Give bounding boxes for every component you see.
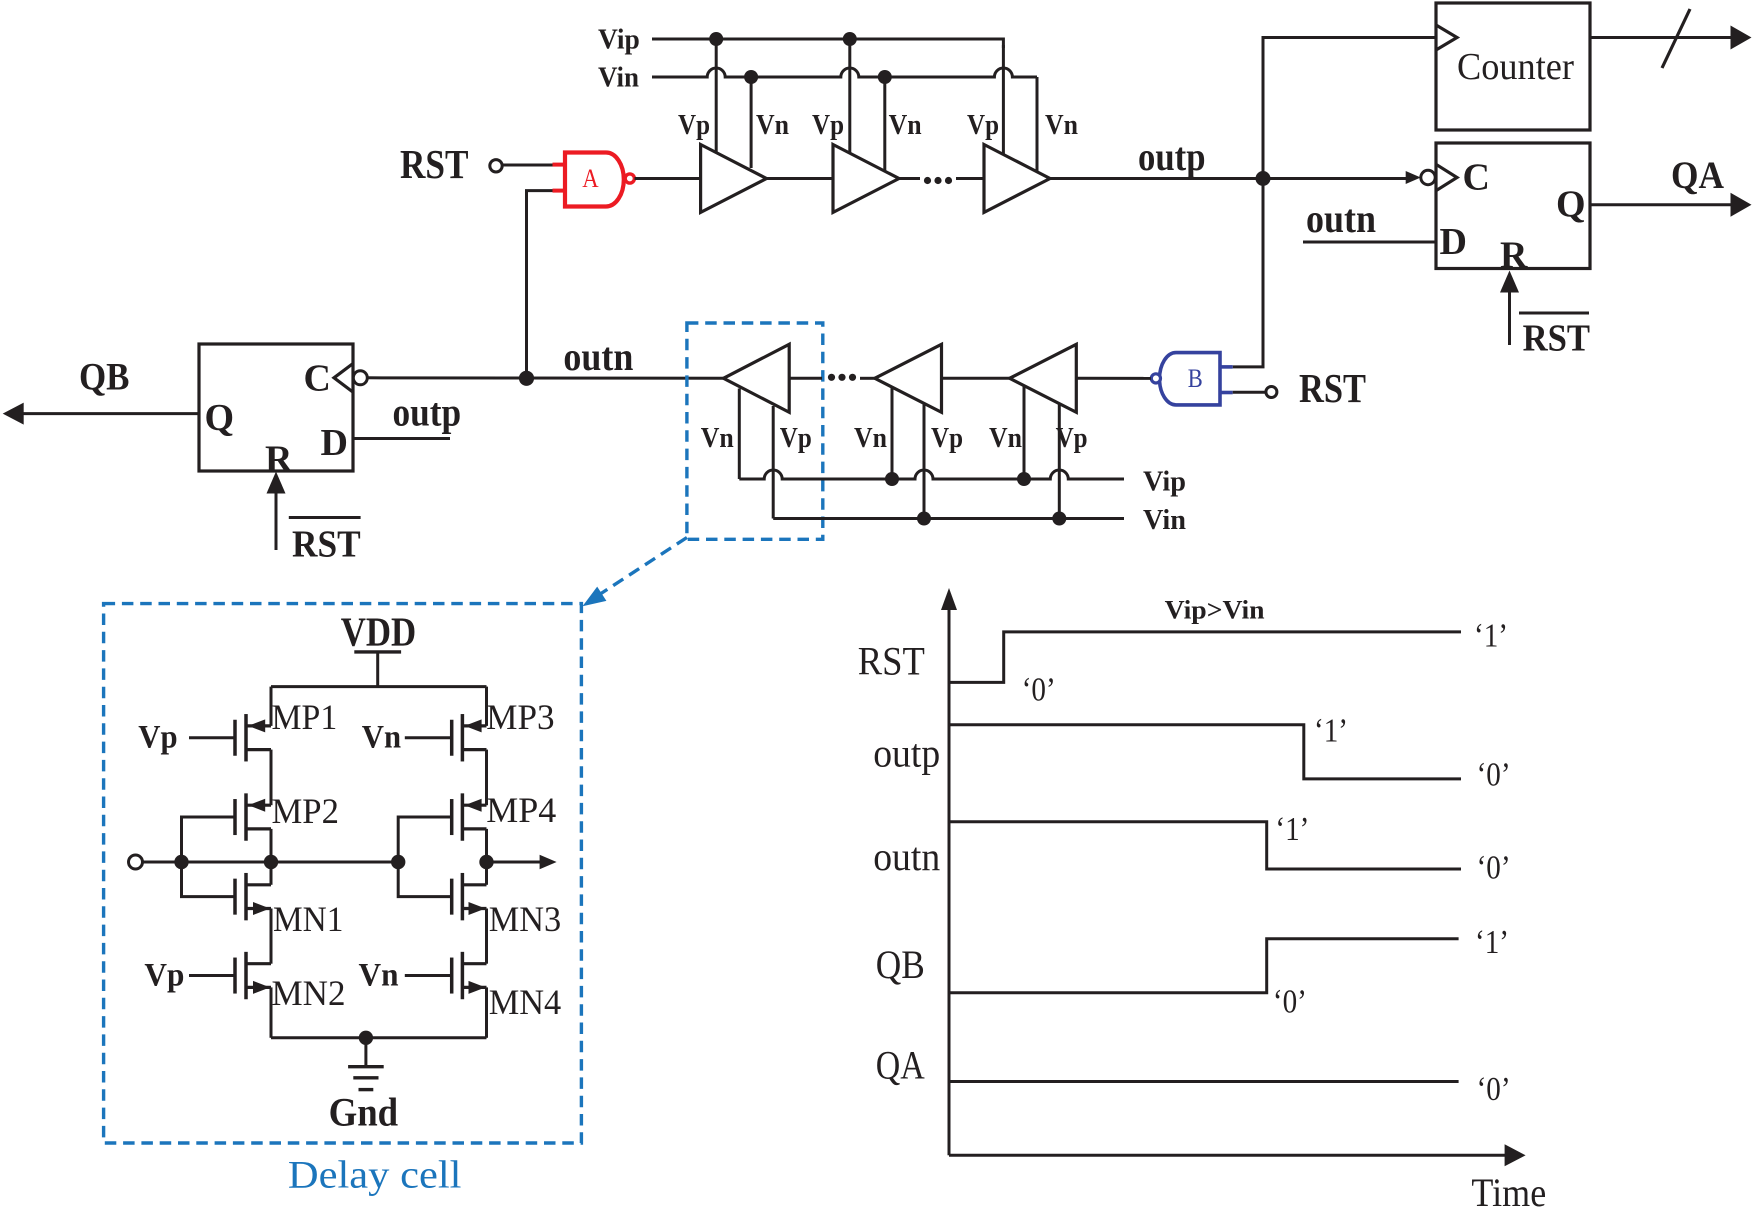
- svg-text:R: R: [265, 439, 293, 481]
- junction Gnd node: [359, 1031, 373, 1045]
- wire Vn3 drop: [1036, 77, 1039, 173]
- wire buffer7 to buffer8: [942, 377, 1010, 380]
- svg-text:Time: Time: [1471, 1170, 1546, 1215]
- svg-text:Vp: Vp: [967, 109, 999, 141]
- svg-text:‘1’: ‘1’: [1475, 924, 1509, 961]
- wire Vip rail (bottom) with hops: [739, 470, 1124, 479]
- svg-text:C: C: [304, 358, 331, 400]
- wire Vp1 drop: [715, 39, 718, 153]
- junction outp node: [1256, 171, 1271, 186]
- svg-text:‘0’: ‘0’: [1022, 672, 1056, 709]
- svg-text:RST: RST: [1523, 318, 1590, 360]
- junction Vip/Vn7: [885, 472, 899, 486]
- wire buffer1 to buffer2: [767, 177, 834, 180]
- wire Vin rail (bottom): [773, 517, 1124, 520]
- flip-flop U5 (QB) box: [199, 344, 353, 471]
- svg-text:RST: RST: [292, 524, 361, 566]
- wire Vn to MP3 gate: [405, 736, 452, 739]
- wire D stub (outp): [353, 437, 450, 440]
- QA waveform: [949, 1080, 1459, 1083]
- wire Vp drop (U6): [772, 406, 775, 519]
- wire QA output: [1590, 203, 1733, 206]
- svg-text:D: D: [321, 422, 348, 464]
- junction Vip/Vp1: [709, 32, 723, 46]
- svg-text:‘1’: ‘1’: [1474, 618, 1508, 655]
- svg-text:Vn: Vn: [359, 958, 399, 994]
- outp waveform: [949, 725, 1461, 779]
- Counter clock triangle: [1436, 25, 1457, 50]
- svg-text:RST: RST: [858, 639, 925, 684]
- FF B clock triangle: [334, 364, 353, 393]
- wire output node 2 to MN3: [485, 862, 488, 885]
- transistor MN3: [452, 873, 562, 939]
- svg-text:MN2: MN2: [272, 973, 346, 1013]
- svg-text:outn: outn: [873, 834, 940, 879]
- svg-text:outn: outn: [563, 334, 633, 379]
- svg-text:Vn: Vn: [701, 422, 734, 454]
- wire gate B output to buffer8: [1076, 377, 1151, 380]
- callout dashed line to delay cell: [601, 538, 687, 594]
- svg-text:A: A: [582, 164, 599, 193]
- buffer U7 (reverse): [875, 344, 942, 412]
- svg-text:RST: RST: [400, 141, 469, 187]
- svg-text:C: C: [1463, 157, 1490, 199]
- svg-text:D: D: [1440, 221, 1467, 263]
- wire Vn to MN4 gate: [405, 974, 452, 977]
- FF B RST-bar overline: [289, 516, 361, 519]
- wire delay cell output: [487, 861, 541, 864]
- VDD symbol: [354, 650, 401, 653]
- transistor MP1: [235, 697, 337, 761]
- svg-text:Vn: Vn: [854, 422, 887, 454]
- junction inverter2 input node: [391, 855, 405, 869]
- junction Vin/Vp7: [917, 512, 931, 526]
- transistor MP2: [235, 791, 339, 841]
- timing vertical axis: [948, 605, 951, 1155]
- wire outn to D: [1303, 241, 1436, 244]
- buffer U8 (reverse): [1010, 344, 1077, 412]
- wire to buffer3: [956, 177, 984, 180]
- junction inverter2 output node: [479, 855, 493, 869]
- junction Vip/Vp2: [843, 32, 857, 46]
- wire Vp3 drop: [1002, 45, 1005, 155]
- svg-text:‘0’: ‘0’: [1273, 984, 1307, 1021]
- wire buffer6 left ellipsis: [789, 377, 822, 380]
- wire RST to gate A: [503, 164, 554, 167]
- wire Vp drop (U7): [923, 404, 926, 519]
- svg-text:Vp: Vp: [780, 422, 812, 454]
- svg-text:MN3: MN3: [489, 899, 562, 939]
- svg-text:Vn: Vn: [362, 720, 401, 756]
- svg-text:Vn: Vn: [889, 109, 922, 141]
- RST terminal (B): [1266, 387, 1277, 398]
- junction inverter1 drain node: [264, 855, 278, 869]
- wire Vp drop (U8): [1058, 404, 1061, 519]
- wire MN3 to MN4: [485, 909, 488, 964]
- svg-text:Q: Q: [1556, 184, 1586, 226]
- wire VDD rail to MP3: [485, 687, 488, 726]
- svg-text:MP1: MP1: [272, 697, 338, 737]
- wire VDD rail to MP1: [270, 687, 273, 726]
- wire Vn drop (U6): [738, 389, 741, 480]
- junction input node: [174, 855, 188, 869]
- svg-text:B: B: [1188, 364, 1203, 393]
- flip-flop U4 (QA) box: [1436, 143, 1590, 269]
- FF A reset arrow: [1508, 290, 1511, 345]
- svg-text:MN1: MN1: [273, 899, 343, 939]
- wire input to gate tie 1: [143, 861, 182, 864]
- wire MN4 to Gnd rail: [485, 987, 488, 1037]
- dashed box: delay cell schematic: [104, 604, 582, 1143]
- VDD rail: [271, 685, 487, 688]
- wire Vn drop (U7): [891, 388, 894, 480]
- svg-text:outn: outn: [1306, 196, 1376, 241]
- junction Vip/Vn8: [1017, 472, 1031, 486]
- svg-text:MP4: MP4: [486, 790, 556, 830]
- svg-text:Vip>Vin: Vip>Vin: [1165, 596, 1266, 625]
- svg-text:Gnd: Gnd: [329, 1090, 399, 1135]
- svg-text:Vp: Vp: [812, 109, 844, 141]
- FF A RST-bar overline: [1519, 312, 1589, 315]
- svg-text:R: R: [1500, 235, 1528, 277]
- wire inverter1 output to inverter2 input: [182, 861, 399, 864]
- input terminal circle: [129, 855, 143, 869]
- wire Vp to MP1 gate: [189, 736, 235, 739]
- svg-text:MP2: MP2: [272, 791, 339, 831]
- FF B clock bubble: [353, 371, 367, 385]
- svg-text:Counter: Counter: [1457, 46, 1574, 88]
- svg-text:QB: QB: [79, 356, 130, 399]
- junction Vin/Vp8: [1052, 512, 1066, 526]
- svg-text:Vin: Vin: [598, 62, 639, 94]
- ground symbol: [348, 1065, 384, 1068]
- svg-text:outp: outp: [393, 390, 462, 435]
- ellipsis (more stages): [924, 177, 931, 184]
- transistor MN2: [235, 952, 346, 1013]
- buffer U2: [833, 145, 899, 213]
- timing horizontal axis (Time): [949, 1154, 1505, 1157]
- NAND gate B: [1220, 365, 1233, 369]
- svg-text:Vn: Vn: [1045, 109, 1078, 141]
- svg-text:Q: Q: [205, 397, 235, 439]
- Gnd stem: [364, 1038, 367, 1067]
- ellipsis (more stages, bottom): [828, 374, 835, 381]
- Counter output arrowhead: [1731, 26, 1752, 50]
- wire MP4 to output node 2: [485, 829, 488, 862]
- FF A clock bubble: [1421, 170, 1435, 184]
- dashed highlight box around delay cell instance: [687, 323, 823, 539]
- wire Vin rail with hops: [652, 68, 1037, 77]
- Counter box: [1436, 3, 1590, 130]
- svg-text:‘0’: ‘0’: [1477, 850, 1511, 887]
- svg-text:MP3: MP3: [486, 697, 554, 737]
- svg-text:QA: QA: [876, 1043, 925, 1088]
- gate tie MP2/MN1: [182, 817, 236, 897]
- svg-text:Vp: Vp: [1056, 422, 1088, 454]
- wire to buffer7: [860, 377, 875, 380]
- svg-text:Vp: Vp: [678, 109, 710, 141]
- wire outp node to Counter clock: [1263, 38, 1436, 179]
- callout arrowhead: [583, 587, 607, 607]
- buffer U1 (Vp/Vn delay cell): [701, 145, 767, 213]
- wire gate A lower input to outn junction: [527, 191, 554, 379]
- QA arrowhead: [1731, 193, 1752, 217]
- junction Vin/Vn1: [744, 70, 758, 84]
- wire Vp to MN2 gate: [189, 974, 235, 977]
- wire Vn2 drop: [883, 77, 886, 172]
- Counter output wire: [1590, 36, 1733, 39]
- svg-text:Vp: Vp: [931, 422, 963, 454]
- Gnd rail: [271, 1036, 487, 1039]
- FF A clock triangle: [1436, 164, 1457, 190]
- svg-text:‘0’: ‘0’: [1477, 757, 1511, 794]
- junction outn node: [519, 371, 534, 386]
- buffer U6 (reverse): [724, 344, 790, 412]
- wire gate B lower input to RST terminal: [1233, 391, 1266, 394]
- svg-text:‘0’: ‘0’: [1477, 1071, 1511, 1108]
- transistor MP4: [452, 790, 557, 841]
- wire QB output: [22, 412, 199, 415]
- wire Vp2 drop: [848, 39, 851, 154]
- svg-text:VDD: VDD: [341, 609, 417, 655]
- svg-text:Vn: Vn: [756, 109, 789, 141]
- bus slash: [1662, 9, 1690, 68]
- svg-text:Vin: Vin: [1143, 504, 1186, 536]
- wire A output to buffer 1: [635, 177, 701, 180]
- svg-text:RST: RST: [1299, 365, 1366, 411]
- svg-text:outp: outp: [1138, 134, 1206, 179]
- svg-text:Delay cell: Delay cell: [288, 1154, 462, 1197]
- wire Vn1 drop: [750, 77, 753, 168]
- wire outp node down to gate B input: [1233, 179, 1263, 367]
- svg-text:Vp: Vp: [138, 720, 177, 756]
- wire Vip rail: [652, 39, 1003, 48]
- svg-text:QB: QB: [876, 942, 925, 987]
- outn waveform: [949, 822, 1461, 869]
- svg-text:QA: QA: [1671, 154, 1724, 197]
- svg-text:outp: outp: [873, 731, 940, 776]
- transistor MP3: [452, 697, 555, 761]
- buffer U3: [984, 145, 1050, 213]
- wire MP2 to output node 1: [270, 829, 273, 862]
- wire outp: [1050, 177, 1407, 180]
- transistor MN1: [235, 873, 343, 939]
- QB waveform: [949, 939, 1459, 993]
- wire MN1 to MN2: [270, 909, 273, 964]
- svg-text:Vp: Vp: [144, 958, 184, 994]
- delay cell output arrowhead: [540, 855, 557, 869]
- wire buffer2 out: [899, 177, 920, 180]
- svg-text:Vip: Vip: [1143, 466, 1186, 498]
- wire output node 1 to MN1: [270, 862, 273, 885]
- FF B reset arrow: [275, 492, 278, 550]
- gate tie MP4/MN3: [398, 817, 452, 897]
- wire MN2 to Gnd rail: [270, 987, 273, 1037]
- RST input terminal: [490, 160, 502, 172]
- wire MP1 to MP2: [270, 750, 273, 806]
- NAND gate A: [553, 163, 566, 167]
- svg-text:‘1’: ‘1’: [1275, 811, 1309, 848]
- clock arrowhead into FF A: [1406, 171, 1421, 184]
- svg-text:MN4: MN4: [489, 982, 562, 1022]
- svg-text:Vn: Vn: [989, 422, 1022, 454]
- svg-text:Vip: Vip: [598, 24, 640, 56]
- RST waveform: [949, 632, 1461, 683]
- transistor MN4: [452, 952, 562, 1022]
- wire Vn drop (U8): [1023, 386, 1026, 479]
- wire MP3 to MP4: [485, 750, 488, 806]
- wire FF B clock to outn junction: [367, 376, 723, 380]
- svg-text:‘1’: ‘1’: [1314, 713, 1348, 750]
- junction Vin/Vn2: [878, 70, 892, 84]
- QB arrowhead: [3, 403, 24, 425]
